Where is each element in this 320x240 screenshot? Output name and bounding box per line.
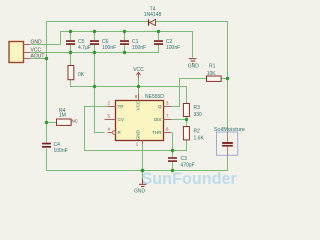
svg-text:TR: TR	[118, 104, 125, 109]
node bottom GND	[141, 169, 145, 173]
svg-text:Q: Q	[158, 104, 162, 109]
diode T4 1N4148	[144, 7, 162, 26]
R pin inversion bubble	[112, 131, 115, 134]
svg-text:VCC: VCC	[135, 100, 140, 110]
svg-text:100nF: 100nF	[54, 148, 68, 154]
wire IC VCC pin8	[138, 87, 140, 94]
svg-text:100nF: 100nF	[132, 45, 146, 51]
svg-text:C5: C5	[78, 39, 85, 45]
wire R4 left lead	[47, 122, 57, 124]
wire C6 bottom lead down to VCC rail y86 and R pin	[95, 45, 105, 133]
svg-text:GND: GND	[31, 40, 43, 46]
node R1 right rail	[226, 77, 229, 80]
svg-text:100nF: 100nF	[102, 45, 116, 51]
wire R2 top lead	[186, 120, 188, 127]
wire C4 bottom to bottom GND rail to SoilMoisture	[47, 149, 228, 171]
svg-text:R2: R2	[194, 129, 201, 135]
svg-text:0K: 0K	[78, 72, 85, 78]
wire Q pin3 up to R1	[172, 79, 207, 107]
resistor R4 1M	[57, 108, 78, 126]
resistor 0K (jumper)	[68, 66, 85, 80]
svg-text:VCC: VCC	[133, 67, 144, 73]
connector pin stubs	[24, 45, 31, 59]
wire C1 top lead	[124, 32, 126, 41]
wire THR pin down to junction	[172, 133, 174, 151]
wire R1 right lead	[221, 78, 228, 80]
wire 0K bottom to VCC rail 86 to R3 top	[71, 80, 187, 104]
op-amp / timer IC U1 NE555D	[105, 94, 172, 147]
capacitor C1	[120, 39, 146, 51]
ground symbol (bottom)	[134, 179, 146, 194]
wire IC GND pin1 down	[142, 144, 144, 171]
wire R3 bottom lead	[186, 117, 188, 120]
svg-text:THR: THR	[152, 130, 162, 135]
capacitor C2	[154, 39, 180, 51]
node C2 top	[157, 30, 160, 33]
wire VCC rail from connector VCC pin	[23, 45, 159, 53]
svg-text:C2: C2	[166, 39, 173, 45]
wire bottom GND symbol stem	[142, 171, 144, 180]
svg-text:C1: C1	[132, 39, 139, 45]
capacitor C6	[90, 39, 116, 51]
wire C3 bottom lead	[172, 162, 174, 171]
wire AOUT from connector	[23, 58, 47, 60]
wire R2 bottom lead corner	[173, 140, 187, 151]
svg-text:DIS: DIS	[154, 117, 162, 122]
node C3 bottom	[171, 169, 174, 172]
wire AOUT vertical x=46.5 top rail to C4	[46, 22, 48, 143]
wire top rail right of diode down right side	[156, 22, 228, 133]
svg-text:GND: GND	[135, 129, 140, 140]
svg-text:SunFounder: SunFounder	[142, 170, 238, 188]
node AOUT junction	[45, 57, 48, 60]
node rail86 R pin	[93, 85, 96, 88]
svg-text:R3: R3	[194, 105, 201, 111]
node rail86 VCC IC pin	[137, 85, 140, 88]
svg-text:C6: C6	[102, 39, 109, 45]
svg-text:330: 330	[194, 112, 203, 118]
svg-text:GND: GND	[134, 188, 146, 194]
svg-text:CV: CV	[118, 117, 125, 122]
capacitor C3 470pF	[168, 156, 195, 169]
svg-text:VCC: VCC	[31, 47, 42, 53]
power flag VCC arrow	[136, 72, 140, 78]
node TR THR C3 R2	[171, 149, 174, 152]
svg-text:10K: 10K	[207, 71, 217, 77]
node C5 bottom VCC rail	[69, 51, 72, 54]
node DIS R3 R2	[185, 118, 188, 121]
wire C3 top lead	[172, 151, 174, 158]
wire C5 bottom lead through to 0K resistor	[70, 45, 72, 66]
svg-text:1.6K: 1.6K	[194, 136, 205, 142]
svg-text:1M: 1M	[59, 112, 66, 118]
capacitor C5	[66, 39, 91, 51]
svg-text:GND: GND	[188, 63, 200, 69]
node C1 top	[123, 30, 126, 33]
node C5 top	[69, 30, 72, 33]
capacitor C4	[42, 142, 68, 154]
node C1 bottom VCC rail	[123, 51, 126, 54]
resistor R1 10K	[207, 64, 222, 82]
power flag GND (top right)	[188, 58, 200, 69]
svg-text:NE555D: NE555D	[145, 94, 164, 100]
wire top rail left of diode	[47, 21, 149, 23]
svg-text:100nF: 100nF	[166, 45, 180, 51]
connector pin labels	[31, 40, 45, 60]
wire VCC arrow stem	[138, 78, 140, 87]
svg-text:C4: C4	[54, 142, 61, 148]
resistor R3 330	[183, 104, 202, 118]
wire C1 bottom lead	[124, 45, 126, 53]
resistor R2 1.6K	[183, 127, 204, 142]
node C6 top	[93, 30, 96, 33]
svg-text:R1: R1	[209, 64, 216, 70]
wire GND net: connector GND pin to top GND rail	[23, 32, 193, 58]
node R4 junction	[45, 121, 48, 124]
wire C6 top lead	[94, 32, 96, 41]
svg-text:1N4148: 1N4148	[144, 12, 162, 18]
wire C5 top lead	[70, 32, 72, 41]
wire DIS pin to R3/R2 junction	[172, 119, 187, 121]
svg-text:470pF: 470pF	[181, 163, 195, 169]
wire TR net: pin2 left, down, bottom rail to THR junction	[85, 107, 173, 151]
connector SoilMoisture probe	[214, 127, 245, 155]
pin stubs	[105, 94, 172, 145]
svg-text:SoilMoisture: SoilMoisture	[214, 127, 245, 133]
node C6 bottom VCC rail	[93, 51, 96, 54]
svg-text:C3: C3	[181, 156, 188, 162]
svg-text:AOUT: AOUT	[31, 54, 45, 60]
connector J1 box	[9, 42, 24, 63]
wire C2 top lead	[158, 32, 160, 41]
svg-text:NC: NC	[72, 119, 78, 124]
svg-text:4.7µF: 4.7µF	[78, 45, 91, 51]
